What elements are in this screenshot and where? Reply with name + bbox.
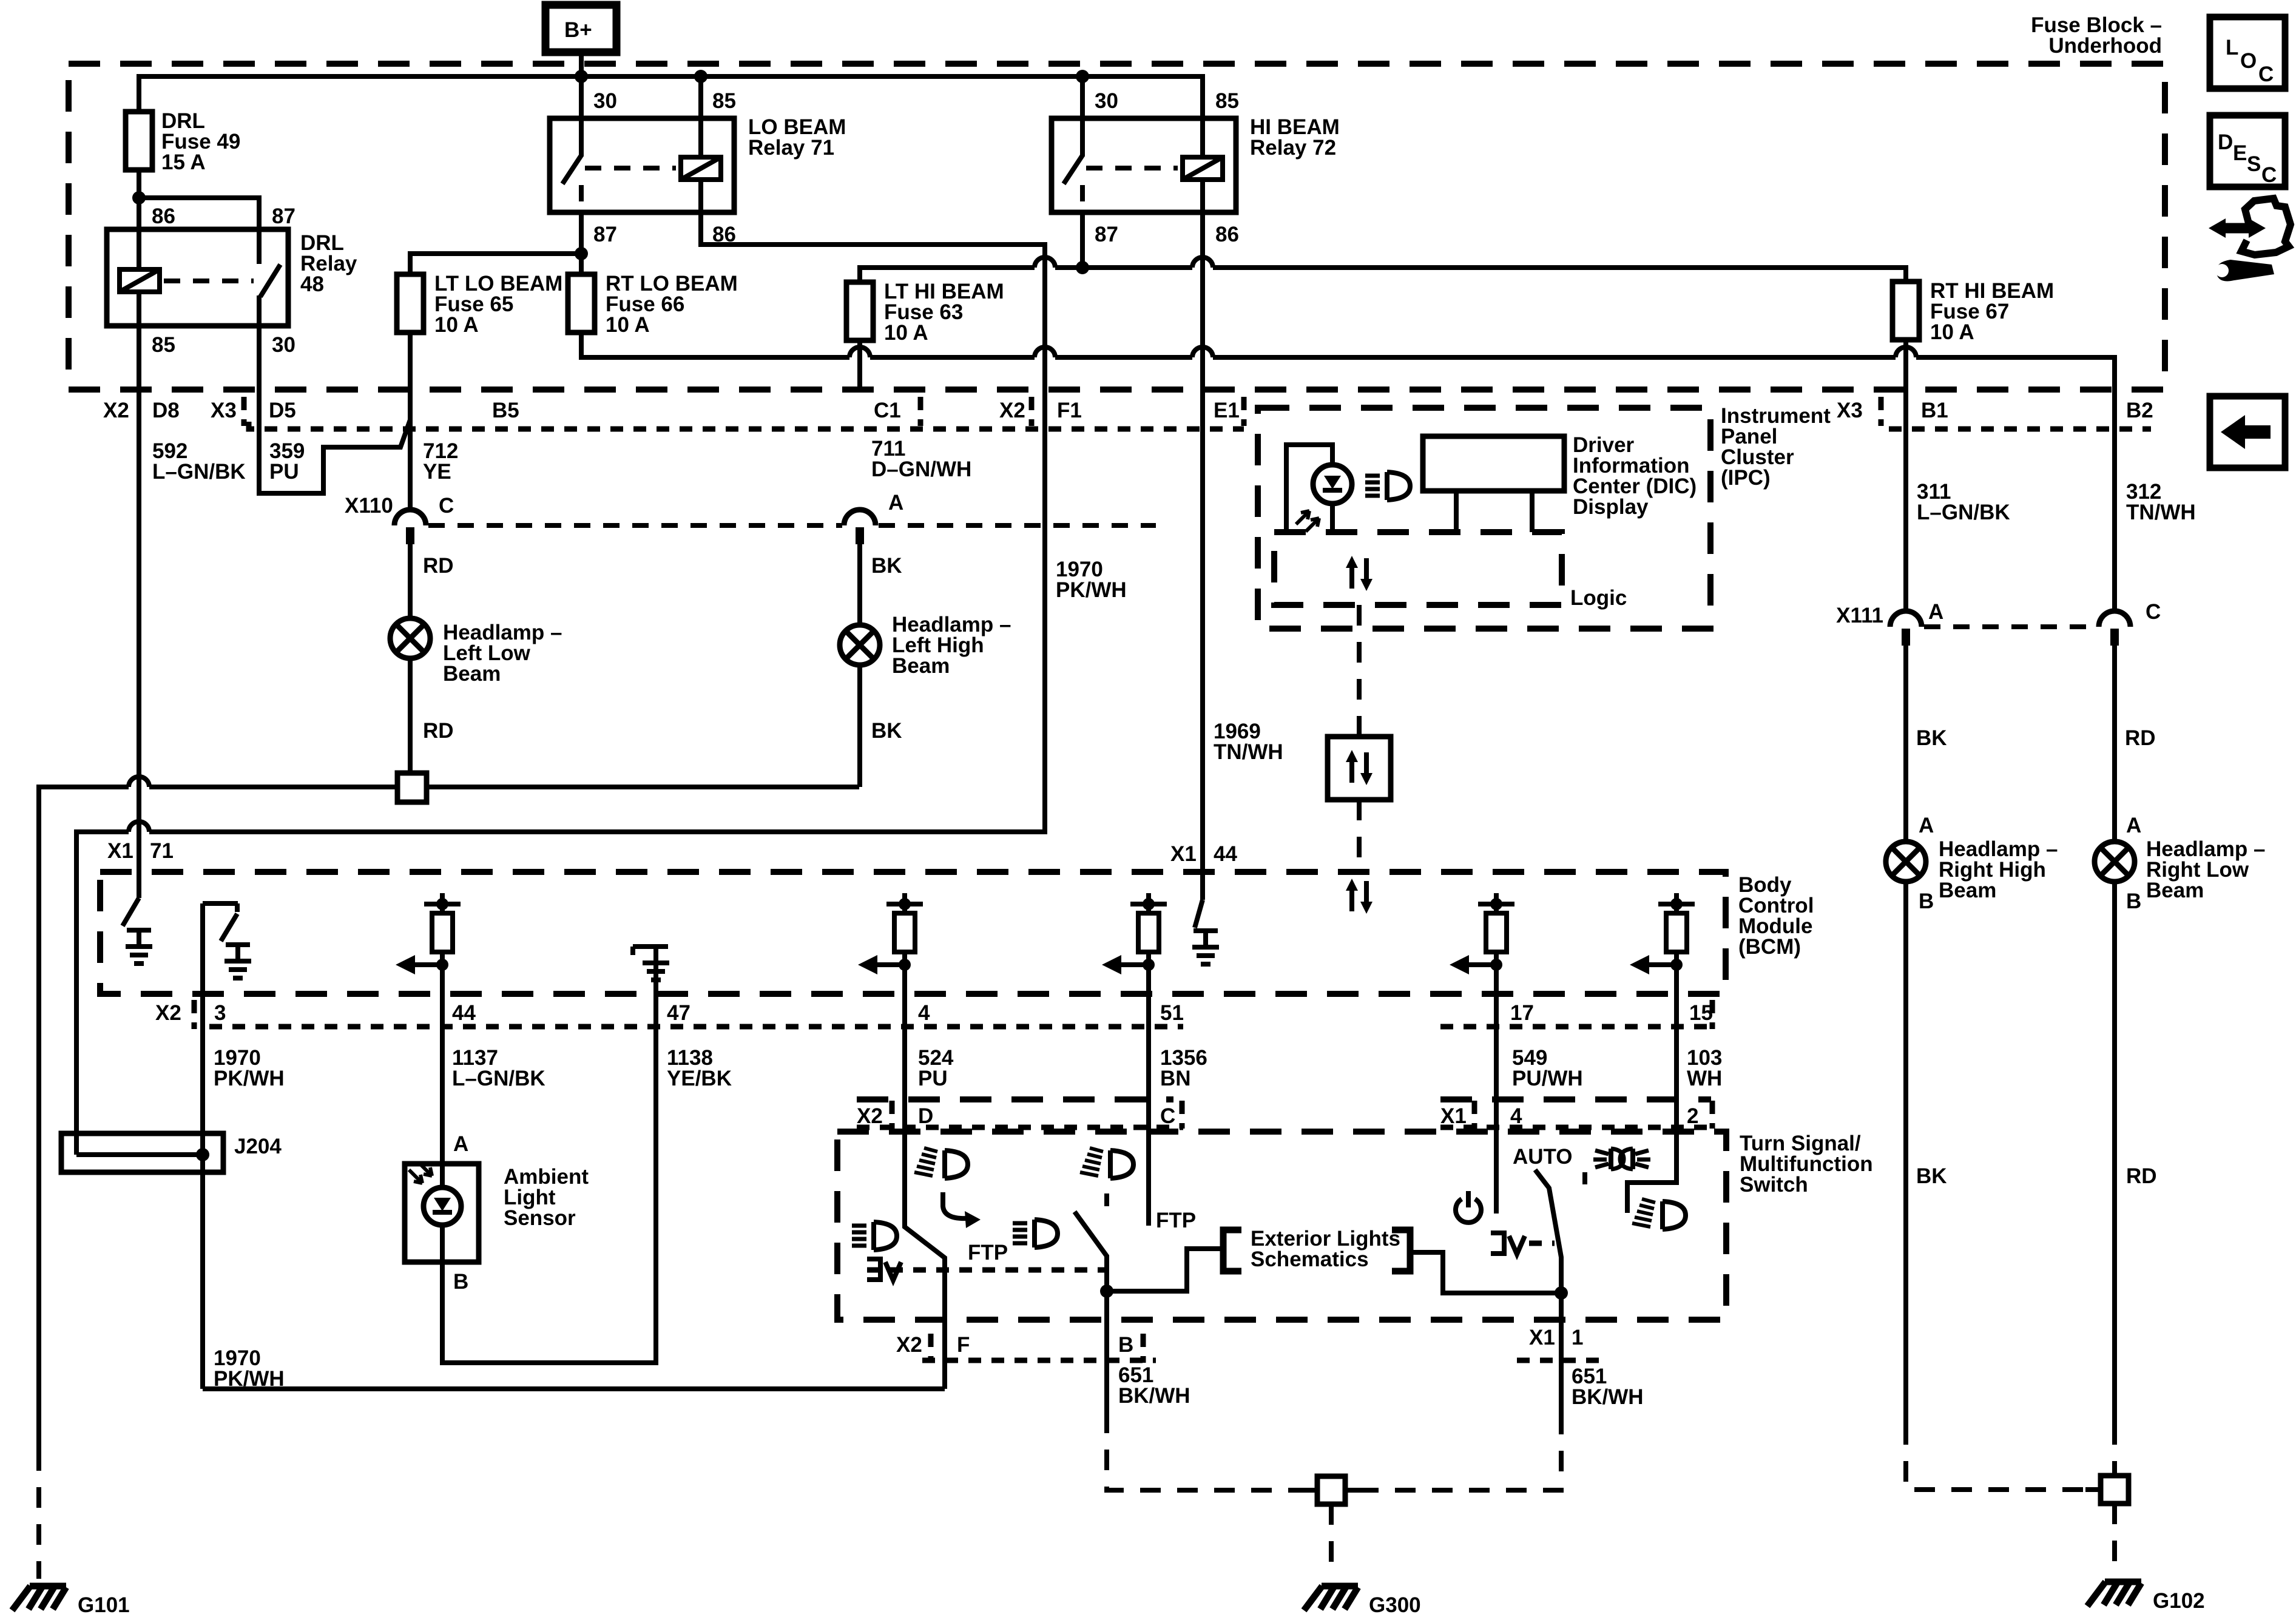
svg-text:YE: YE	[423, 460, 451, 484]
wire pin44 down	[440, 1000, 445, 1164]
svg-text:X3: X3	[211, 399, 237, 422]
BCM driver pin15	[1630, 893, 1695, 1000]
hop arc over fuse63 wire	[849, 347, 870, 357]
wire E1 1969 down to BCM X1-44	[1200, 390, 1205, 900]
svg-text:C: C	[2258, 62, 2274, 86]
node auto blade	[1555, 1286, 1568, 1300]
wire pin17 549 down to AUTO contact	[1494, 1000, 1499, 1214]
svg-text:PK/WH: PK/WH	[1056, 578, 1127, 602]
wire fuse66 output bus to B2 (y=589)	[581, 333, 2115, 390]
flash icon over headlamp switch	[914, 1148, 968, 1178]
svg-text:B: B	[453, 1270, 468, 1294]
svg-text:30: 30	[1095, 89, 1118, 113]
svg-text:J204: J204	[234, 1135, 282, 1158]
BCM bottom connector fine dashed right	[1440, 1024, 1717, 1030]
svg-text:A: A	[888, 491, 903, 515]
wire D5 359 jog joining 712	[259, 390, 410, 493]
node pin87 branch	[575, 247, 588, 260]
svg-text:D: D	[918, 1104, 933, 1128]
svg-text:S: S	[2247, 152, 2261, 176]
power symbol icon	[1456, 1191, 1481, 1223]
svg-text:L–GN/BK: L–GN/BK	[152, 460, 246, 484]
svg-text:BK: BK	[1916, 1164, 1947, 1188]
off position icon right	[1491, 1233, 1525, 1254]
low beam indicator icon in DIC	[1365, 472, 1410, 500]
inline connector X110 C	[394, 510, 426, 544]
svg-text:30: 30	[272, 333, 295, 357]
svg-text:85: 85	[712, 89, 736, 113]
svg-text:X1: X1	[1529, 1326, 1555, 1349]
node bus/relay71-85	[694, 70, 707, 83]
AUTO switch blade	[1535, 1170, 1561, 1293]
wire pin47 return up from sensor	[442, 994, 656, 1363]
BCM switch pin71 to ground	[123, 872, 152, 964]
splice square on L1	[397, 773, 427, 802]
svg-text:AUTO: AUTO	[1513, 1145, 1573, 1169]
wire branch to DRL relay pin87	[139, 198, 259, 229]
svg-text:B: B	[1919, 890, 1934, 913]
separator after X2 bottom	[192, 1000, 197, 1029]
DIC logic dashed box	[1274, 532, 1562, 605]
mech link dash auto	[1529, 1241, 1555, 1246]
ground G101	[12, 1586, 66, 1610]
svg-text:87: 87	[1095, 223, 1118, 246]
node blade to B	[1100, 1284, 1113, 1298]
BCM switch X1-44 to ground	[1192, 900, 1219, 964]
fuse F66 RT LO BEAM Fuse 66 10A	[568, 274, 595, 333]
J204 box	[61, 1133, 223, 1172]
svg-text:YE/BK: YE/BK	[667, 1067, 732, 1090]
svg-text:30: 30	[593, 89, 617, 113]
curved arrow of flash position	[943, 1192, 968, 1218]
connector row X2-D / C / X1-4 / 2 long dash left	[857, 1096, 1173, 1102]
wire branch to fuse65	[410, 254, 581, 274]
svg-text:D: D	[2218, 130, 2233, 154]
wire fuse65 to B5	[408, 333, 413, 390]
svg-text:PU/WH: PU/WH	[1512, 1067, 1583, 1090]
wire BK left high lamp down to return line	[857, 665, 862, 787]
serial data arrows in logic box	[1346, 556, 1373, 591]
svg-text:BK: BK	[871, 554, 902, 578]
multifunction bottom connector fine dash right	[1517, 1358, 1608, 1363]
lamp headlamp left low beam	[390, 618, 430, 658]
dashed stub square to G102	[2112, 1504, 2117, 1575]
svg-text:RD: RD	[2126, 1164, 2157, 1188]
hop arc over E1 wire on y441	[1192, 257, 1213, 268]
wire inside J204	[76, 1152, 203, 1157]
connector fine dashed line right segment	[1889, 427, 2151, 432]
svg-text:10 A: 10 A	[606, 313, 650, 337]
BCM driver pin51	[1102, 893, 1167, 1000]
svg-text:X1: X1	[1440, 1104, 1467, 1128]
dashed ground run BK to G102	[1906, 1424, 2101, 1490]
separator after B row D	[1141, 1334, 1146, 1363]
svg-text:X111: X111	[1836, 604, 1883, 627]
svg-text:10 A: 10 A	[434, 313, 479, 337]
svg-text:PU: PU	[918, 1067, 948, 1090]
svg-text:PK/WH: PK/WH	[214, 1067, 285, 1090]
X111 dashed connector link	[1924, 624, 2096, 629]
wire RD left low lamp to splice	[408, 658, 413, 773]
switch blade headlamp on	[1075, 1212, 1107, 1291]
dashed ground run 651 left	[1107, 1413, 1317, 1490]
BCM bottom connector fine dashed left	[209, 1024, 1183, 1030]
svg-text:D–GN/WH: D–GN/WH	[871, 457, 971, 481]
svg-text:3: 3	[214, 1001, 226, 1025]
wire fuse49 to DRL relay pin86	[137, 170, 141, 229]
ambient light sensor box	[405, 1163, 479, 1262]
svg-text:B: B	[2126, 890, 2141, 913]
svg-text:F1: F1	[1057, 399, 1082, 422]
svg-text:X2: X2	[155, 1001, 181, 1025]
inline connector X111 C	[2099, 611, 2130, 646]
DIC display box	[1423, 436, 1564, 532]
svg-text:BK/WH: BK/WH	[1572, 1385, 1644, 1409]
svg-text:G101: G101	[78, 1593, 130, 1617]
B+ battery feed symbol	[545, 5, 616, 52]
relay K71 LO BEAM Relay 71	[550, 76, 734, 212]
node J204	[196, 1148, 209, 1161]
separator after 15	[1710, 1000, 1715, 1029]
svg-text:FTP: FTP	[1156, 1209, 1196, 1232]
svg-text:A: A	[453, 1132, 468, 1156]
svg-text:PK/WH: PK/WH	[214, 1367, 285, 1391]
ground G300	[1304, 1586, 1358, 1610]
svg-text:FTP: FTP	[968, 1241, 1008, 1264]
svg-text:Underhood: Underhood	[2048, 34, 2162, 58]
svg-text:RD: RD	[423, 719, 454, 743]
IPC dashed box	[1258, 408, 1710, 629]
svg-text:E1: E1	[1214, 399, 1240, 422]
wire relay71 pin86 to F1 feed	[701, 212, 1045, 257]
separator after X2 row C	[890, 1101, 895, 1129]
svg-text:A: A	[1928, 600, 1943, 624]
svg-text:86: 86	[1215, 223, 1239, 246]
return line L2 1970 PK/WH from F1 to J204	[76, 390, 1045, 1155]
lamp headlamp left high beam	[840, 625, 880, 665]
svg-text:B+: B+	[564, 18, 592, 42]
separator X3 left	[241, 397, 247, 426]
connector row long dash right	[1440, 1096, 1711, 1102]
svg-text:C: C	[2146, 600, 2161, 624]
serial data arrows in node box	[1346, 750, 1373, 785]
node fuse49 branch	[132, 191, 146, 204]
fine dashed row left	[857, 1125, 1183, 1130]
hop arc L2 over 592 wire	[129, 822, 149, 832]
svg-text:PU: PU	[269, 460, 299, 484]
svg-text:G102: G102	[2153, 1589, 2205, 1613]
fine dashed row right	[1440, 1125, 1711, 1130]
svg-text:A: A	[1919, 814, 1934, 837]
dashed ground run 651 right	[1345, 1414, 1561, 1490]
svg-text:BK: BK	[871, 719, 902, 743]
svg-text:47: 47	[667, 1001, 690, 1025]
wire 651 left to ground run	[1104, 1291, 1109, 1413]
wire RD X111 to right low lamp	[2112, 646, 2117, 841]
wire B+ to bus	[579, 52, 584, 76]
fuse F65 LT LO BEAM Fuse 65 10A	[397, 274, 424, 333]
svg-text:Beam: Beam	[892, 654, 950, 678]
svg-text:L–GN/BK: L–GN/BK	[452, 1067, 545, 1090]
svg-text:Relay 71: Relay 71	[748, 136, 834, 160]
wire F1 down through fuse block	[1042, 257, 1047, 390]
dashed ground run RD to G102	[2112, 1424, 2117, 1476]
svg-text:51: 51	[1160, 1001, 1184, 1025]
fuse F49 DRL Fuse 49 15A	[126, 112, 152, 170]
wire 312 to X111 C	[2112, 390, 2117, 611]
low beam icon left	[852, 1222, 897, 1250]
hop arc over fuse67 wire	[1896, 347, 1916, 357]
svg-text:E: E	[2233, 141, 2247, 165]
wire hi-beam bus y=441 from fuse63 to fuse67	[860, 268, 1906, 282]
flash icon right	[1080, 1148, 1133, 1178]
svg-text:B1: B1	[1921, 399, 1948, 422]
svg-text:Switch: Switch	[1740, 1173, 1808, 1197]
svg-text:Beam: Beam	[2146, 879, 2204, 902]
svg-text:B: B	[1118, 1333, 1133, 1357]
svg-text:L–GN/BK: L–GN/BK	[1917, 501, 2010, 524]
svg-text:1: 1	[1572, 1326, 1583, 1349]
wire fuse67 to B1	[1903, 340, 1908, 390]
relay K72 HI BEAM Relay 72	[1052, 76, 1236, 212]
wire relay72 pin86 down to E1	[1200, 212, 1205, 390]
svg-text:D5: D5	[269, 399, 296, 422]
serial data node box	[1328, 737, 1391, 800]
svg-text:RD: RD	[423, 554, 454, 578]
BCM switch pin3 to ground	[203, 903, 251, 1155]
svg-text:D8: D8	[152, 399, 180, 422]
separator after X2 row D	[928, 1334, 934, 1363]
ground drop dashed to G101	[36, 1450, 41, 1579]
separator X2 mid	[1029, 397, 1035, 426]
svg-text:X1: X1	[1170, 842, 1197, 866]
inline connector X110 A	[844, 510, 876, 544]
svg-text:F: F	[957, 1333, 970, 1357]
svg-text:X110: X110	[345, 494, 393, 518]
fuse block underhood dashed border	[69, 64, 2165, 390]
svg-text:2: 2	[1687, 1104, 1698, 1128]
separator X3 right	[1879, 397, 1884, 426]
svg-text:A: A	[2126, 814, 2141, 837]
BCM driver pin4	[858, 893, 923, 1000]
svg-text:85: 85	[152, 333, 175, 357]
node relay72 pin87 on y441	[1076, 261, 1089, 274]
separator after C1	[918, 397, 923, 426]
svg-text:17: 17	[1510, 1001, 1534, 1025]
serial data dashed wire to BCM	[1357, 800, 1362, 872]
BCM driver pin17	[1450, 893, 1514, 1000]
wire BK X111 to right high lamp	[1903, 646, 1908, 841]
wire pin51 1356 BN down to FTP contact	[1146, 1000, 1151, 1226]
svg-text:O: O	[2240, 49, 2257, 73]
X110 dashed connector line	[428, 523, 842, 528]
svg-text:10 A: 10 A	[1930, 320, 1974, 344]
svg-text:L: L	[2226, 36, 2238, 59]
fuse F67 RT HI BEAM Fuse 67 10A	[1893, 282, 1919, 340]
svg-text:Beam: Beam	[1939, 879, 1996, 902]
parking lamp icon	[1593, 1149, 1650, 1169]
wire fuse63 to C1	[857, 340, 862, 390]
svg-text:C: C	[1160, 1104, 1175, 1128]
svg-text:(IPC): (IPC)	[1721, 466, 1771, 490]
separator after C row C	[1180, 1101, 1185, 1129]
svg-text:X2: X2	[857, 1104, 883, 1128]
svg-text:X2: X2	[999, 399, 1025, 422]
separator after X1 row C	[1472, 1101, 1477, 1129]
Exterior Lights Schematics reference	[1107, 1230, 1561, 1293]
back arrow box icon	[2210, 396, 2285, 468]
svg-text:48: 48	[300, 272, 324, 296]
svg-text:Schematics: Schematics	[1251, 1247, 1369, 1271]
svg-text:B5: B5	[492, 399, 519, 422]
svg-text:85: 85	[1215, 89, 1239, 113]
BCM dashed box	[100, 872, 1726, 994]
multifunction switch dashed box	[837, 1132, 1726, 1320]
svg-text:Display: Display	[1573, 495, 1649, 519]
top feed bus wire	[139, 76, 1203, 118]
wire DRL relay pin30 to D5	[257, 326, 262, 390]
wire RD X110 to left low lamp	[408, 544, 413, 618]
wire D8 592 down to BCM X1-71	[137, 390, 141, 872]
return line L1 to G101	[39, 787, 859, 1450]
svg-text:Sensor: Sensor	[504, 1206, 576, 1230]
wire BK X110 to left high lamp	[857, 544, 862, 625]
svg-text:87: 87	[272, 204, 295, 228]
multifunction bottom connector fine dash left	[922, 1358, 1156, 1363]
hop arc over E1 wire	[1192, 347, 1213, 357]
node bus/relay72-30	[1076, 70, 1089, 83]
dashed stub to G300	[1329, 1504, 1334, 1578]
svg-text:X2: X2	[896, 1333, 922, 1357]
separator after 2 row C	[1710, 1101, 1715, 1129]
wire pin4 down to multifunction switch	[203, 1000, 945, 1389]
wire BK right high beam return	[1903, 882, 1908, 1424]
off position icon left	[867, 1259, 901, 1280]
svg-text:TN/WH: TN/WH	[1214, 740, 1283, 764]
svg-text:15 A: 15 A	[161, 150, 206, 174]
svg-text:X3: X3	[1837, 399, 1863, 422]
mechanical link dashed row	[867, 1268, 1107, 1273]
photo sensor circuit in DIC	[1286, 445, 1352, 532]
svg-text:Beam: Beam	[443, 662, 501, 686]
BCM ground pin47	[633, 947, 669, 994]
lamp headlamp right low beam	[2095, 842, 2135, 882]
position tick below flash icon	[1104, 1193, 1109, 1206]
svg-text:G300: G300	[1369, 1593, 1421, 1617]
wire DRL relay pin85 to D8	[137, 326, 141, 390]
G300 ground square	[1302, 1488, 1317, 1493]
svg-text:X2: X2	[103, 399, 129, 422]
svg-text:RD: RD	[2125, 726, 2156, 750]
svg-text:87: 87	[593, 223, 617, 246]
fuse F63 LT HI BEAM Fuse 63 10A	[846, 282, 873, 340]
svg-text:15: 15	[1689, 1001, 1713, 1025]
wire 311 to X111 A	[1903, 390, 1908, 611]
separator after E1	[1241, 397, 1247, 426]
svg-text:4: 4	[918, 1001, 930, 1025]
wire RD right low beam return	[2112, 882, 2117, 1424]
svg-text:86: 86	[152, 204, 175, 228]
inline connector X111 A	[1890, 611, 1922, 646]
svg-text:BN: BN	[1160, 1067, 1191, 1090]
svg-text:C: C	[439, 494, 454, 518]
connector fine dashed line left segment	[249, 422, 1244, 429]
svg-text:(BCM): (BCM)	[1738, 935, 1801, 959]
hop arc L1 over 592 wire	[129, 777, 149, 787]
serial data dashed wire from logic	[1357, 605, 1362, 737]
wire 651 right to ground run	[1559, 1293, 1564, 1414]
relay K48 DRL Relay 48	[107, 229, 288, 326]
svg-text:Logic: Logic	[1570, 586, 1627, 610]
svg-text:10 A: 10 A	[884, 321, 928, 345]
svg-text:4: 4	[1510, 1104, 1522, 1128]
low beam icon mid	[1013, 1220, 1058, 1247]
hop arc over F1 wire on y441	[1035, 257, 1055, 268]
BCM driver pin44	[396, 893, 461, 1000]
serial data arrows at BCM entry	[1346, 879, 1373, 914]
svg-text:WH: WH	[1687, 1067, 1722, 1090]
svg-text:BK: BK	[1916, 726, 1947, 750]
ground G102	[2087, 1582, 2141, 1606]
DESC box icon	[2210, 115, 2285, 187]
wire pin15 103 down into multifunction switch	[1627, 1000, 1676, 1213]
svg-text:TN/WH: TN/WH	[2126, 501, 2196, 524]
fog lamp icon bottom right	[1632, 1199, 1686, 1229]
wire B5 712 down to X110 C	[408, 390, 413, 510]
wire relay72 pin87 down to y441	[1080, 212, 1085, 268]
svg-text:44: 44	[1214, 842, 1237, 866]
car door with arrow and wrench icon	[2209, 198, 2291, 282]
svg-text:X1: X1	[107, 839, 133, 863]
lamp headlamp right high beam	[1886, 842, 1926, 882]
svg-text:44: 44	[452, 1001, 476, 1025]
svg-text:Relay 72: Relay 72	[1250, 136, 1336, 160]
svg-text:C: C	[2261, 163, 2277, 187]
svg-text:B2: B2	[2126, 399, 2153, 422]
svg-text:C1: C1	[874, 399, 901, 422]
hop arc over F1 wire	[1035, 347, 1055, 357]
svg-text:71: 71	[150, 839, 174, 863]
wire relay71 pin87 down to fuse66 and fuse65 branch	[579, 212, 584, 274]
svg-text:BK/WH: BK/WH	[1118, 1384, 1190, 1408]
LOC box icon	[2210, 17, 2285, 89]
position tick below parking icon	[1582, 1172, 1587, 1184]
node bus/B+	[575, 70, 588, 83]
G102 ground square	[2085, 1487, 2101, 1492]
